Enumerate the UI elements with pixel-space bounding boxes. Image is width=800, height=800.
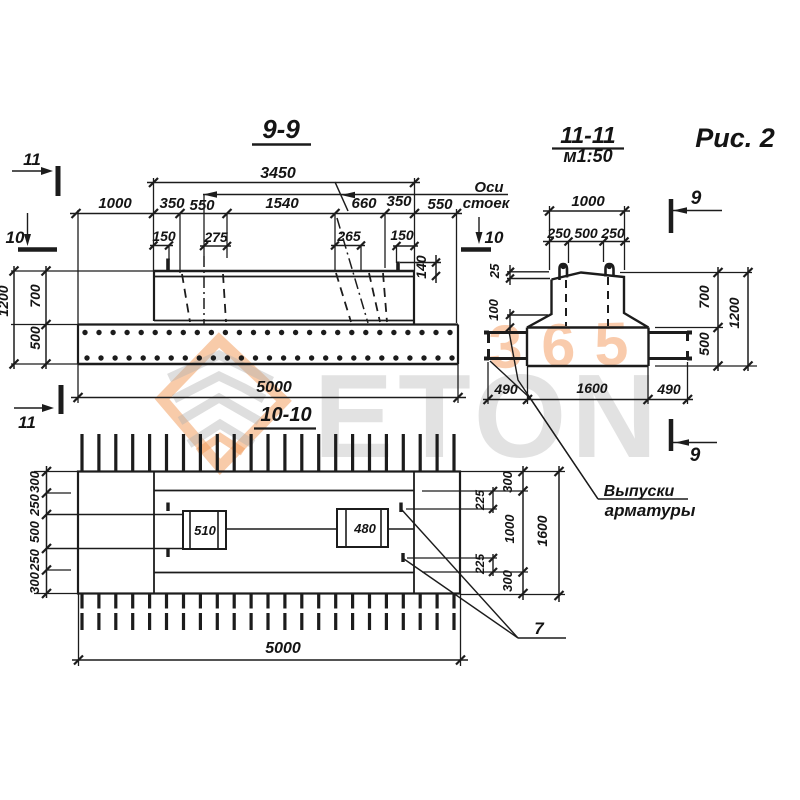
- svg-text:350: 350: [386, 193, 412, 210]
- plan outer slab rectangle: [78, 472, 460, 594]
- anchor box 480: [337, 509, 388, 547]
- svg-text:9: 9: [691, 188, 702, 209]
- section marker 9 bottom: [671, 419, 717, 466]
- svg-text:500: 500: [27, 326, 43, 350]
- svg-text:9: 9: [690, 445, 701, 466]
- svg-text:150: 150: [152, 228, 176, 244]
- rebar outlets right (channel): [649, 331, 693, 360]
- svg-text:м1:50: м1:50: [563, 146, 612, 166]
- svg-text:275: 275: [203, 229, 228, 245]
- column 2 dashed sides: [336, 273, 387, 322]
- plan right dims 300/1000/300: [500, 466, 528, 600]
- svg-text:660: 660: [351, 195, 377, 212]
- title 9-9: [252, 114, 311, 145]
- svg-text:5000: 5000: [256, 379, 292, 396]
- svg-text:700: 700: [696, 285, 712, 309]
- small dims 150 275 265 150: [150, 227, 419, 250]
- svg-text:150: 150: [390, 227, 414, 243]
- bottom dims 490 1600 490 (11-11): [483, 362, 693, 404]
- svg-text:7: 7: [534, 619, 545, 638]
- plan right extension lines: [422, 472, 565, 595]
- title 11-11: [552, 122, 624, 166]
- left dims 1200 700 500: [0, 266, 154, 369]
- plan dims 225 lower: [407, 554, 497, 576]
- svg-text:225: 225: [473, 490, 487, 511]
- svg-text:250: 250: [27, 493, 42, 516]
- pedestal 9-9: [154, 271, 414, 325]
- plan top rebar ticks: [82, 434, 454, 472]
- section marker 9 top: [671, 188, 722, 233]
- pedestal cross-section 11-11: [527, 273, 649, 328]
- svg-text:1000: 1000: [571, 193, 605, 210]
- svg-text:9-9: 9-9: [262, 114, 300, 144]
- svg-text:700: 700: [27, 284, 43, 308]
- svg-text:25: 25: [487, 263, 502, 279]
- svg-text:250: 250: [600, 225, 625, 241]
- dim 5000 under 9-9: [71, 364, 466, 403]
- slab 9-9: [78, 325, 458, 365]
- rebar outlets left (channel): [484, 331, 527, 360]
- column 1 dashed sides: [182, 274, 226, 322]
- svg-text:300: 300: [500, 569, 515, 591]
- svg-text:490: 490: [656, 381, 681, 397]
- column 2 axis slanted (dash-dot): [337, 218, 368, 323]
- column 1 axis (dash-dot): [203, 256, 205, 324]
- dim 1000 (11-11): [543, 193, 630, 216]
- dimension 3450: [147, 165, 420, 187]
- svg-text:1540: 1540: [265, 195, 299, 212]
- rebar dots row 1: [82, 330, 452, 335]
- svg-text:225: 225: [473, 554, 487, 575]
- svg-text:265: 265: [336, 228, 361, 244]
- plan interior lines to anchor box: [46, 515, 183, 549]
- right dims 700 500 1200 (11-11): [620, 267, 757, 371]
- rebar tab right on top: [606, 264, 614, 277]
- dims 250 500 250 (11-11): [543, 225, 630, 246]
- svg-text:1200: 1200: [726, 297, 742, 328]
- svg-text:550: 550: [189, 197, 215, 214]
- plan left dims 300/250/500/250/300: [27, 466, 78, 598]
- rebar outlet tick right on pedestal top: [396, 262, 400, 273]
- svg-text:арматуры: арматуры: [605, 501, 696, 520]
- plan bottom rebar ticks (broken): [82, 595, 454, 631]
- svg-text:510: 510: [194, 523, 216, 538]
- svg-text:500: 500: [27, 520, 42, 542]
- svg-text:5000: 5000: [265, 640, 301, 657]
- dim 25 (tab height): [487, 263, 550, 285]
- svg-text:Оси: Оси: [474, 179, 503, 196]
- plan right dim 1600: [534, 466, 564, 602]
- rebar dots row 2: [84, 355, 454, 360]
- slab cross-section 11-11: [527, 328, 649, 367]
- svg-text:11: 11: [23, 150, 41, 169]
- section marker 11 top-left: [12, 150, 58, 196]
- svg-text:500: 500: [696, 332, 712, 356]
- svg-text:100: 100: [486, 298, 501, 320]
- label Vypuski armatury with leaders: [490, 332, 696, 521]
- plan rebar outlet dashes left pair: [166, 503, 169, 558]
- title 10-10: [254, 404, 316, 429]
- section marker 10 left: [6, 213, 57, 250]
- extension lines 11-11 top dims: [550, 206, 625, 270]
- svg-text:350: 350: [159, 195, 185, 212]
- svg-text:10: 10: [6, 228, 25, 247]
- slanted axis extension of column 2: [335, 182, 348, 211]
- svg-text:стоек: стоек: [463, 195, 511, 212]
- svg-text:1000: 1000: [98, 195, 132, 212]
- svg-text:Выпуски: Выпуски: [604, 483, 675, 500]
- section marker 11 bottom-left: [14, 385, 61, 432]
- svg-text:480: 480: [353, 521, 376, 536]
- svg-text:1600: 1600: [534, 515, 550, 546]
- svg-text:1200: 1200: [0, 285, 11, 316]
- svg-text:10-10: 10-10: [260, 404, 311, 426]
- svg-text:300: 300: [500, 470, 515, 492]
- svg-text:550: 550: [427, 196, 453, 213]
- svg-text:300: 300: [27, 571, 42, 593]
- svg-text:10: 10: [485, 228, 504, 247]
- rebar outlet tick left on pedestal top: [166, 259, 170, 272]
- svg-text:3450: 3450: [260, 165, 296, 182]
- watermark logo diamond: [162, 340, 284, 467]
- dashed rebar lines inside pedestal: [566, 277, 608, 326]
- rebar tab left on top: [560, 264, 568, 280]
- svg-text:11-11: 11-11: [560, 122, 615, 148]
- svg-text:1000: 1000: [502, 514, 517, 544]
- dim 140 (rebar outlet height): [400, 255, 441, 283]
- callout line axes of columns (Osi stoek): [203, 179, 511, 212]
- main dimension row 1000/350/550/1540/660/350/550: [70, 193, 462, 218]
- svg-text:250: 250: [27, 548, 42, 571]
- dim 5000 under plan: [72, 594, 468, 667]
- dim 100 (slope height): [486, 298, 548, 331]
- svg-text:11: 11: [18, 413, 36, 432]
- plan rebar outlet dashes right pair: [401, 503, 403, 563]
- svg-text:140: 140: [413, 255, 429, 279]
- svg-text:1600: 1600: [576, 380, 607, 396]
- plan dims 225 upper: [406, 487, 497, 513]
- extension lines for 9-9 dims: [78, 178, 457, 325]
- svg-text:500: 500: [574, 225, 598, 241]
- svg-text:Рис. 2: Рис. 2: [695, 123, 775, 153]
- anchor box 510: [183, 511, 226, 549]
- center axis line between boxes: [226, 528, 414, 530]
- svg-text:300: 300: [27, 470, 42, 492]
- plan pedestal inner rectangle: [154, 472, 414, 594]
- section marker 10 middle: [461, 217, 504, 250]
- callout 7 with leaders: [402, 510, 566, 638]
